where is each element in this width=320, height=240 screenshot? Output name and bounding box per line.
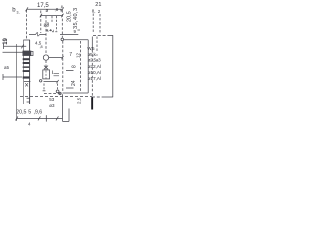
dimension line 2 (y15.5): [41, 15, 63, 17]
svg-text:,9,6: ,9,6: [34, 110, 43, 116]
dimension line 17,5 (top): [27, 8, 63, 10]
faceplate bar 1: [23, 58, 30, 60]
faceplate centerline dashed (above): [26, 10, 28, 40]
svg-text:ø10,Al: ø10,Al: [88, 70, 101, 76]
tiny 4 below line: [28, 122, 31, 127]
plus tick x44: [43, 90, 46, 92]
faceplate bar 5: [23, 76, 30, 78]
svg-text:12: 12: [75, 52, 80, 58]
long vertical extension line x16.6: [16, 44, 18, 121]
svg-text:,8: ,8: [40, 45, 43, 49]
svg-text:53: 53: [49, 97, 55, 102]
small circle on line: [59, 92, 61, 94]
slash ticks on bottom dim: [16, 116, 18, 120]
front view: top edge: [64, 39, 89, 41]
svg-text:19: 19: [3, 37, 9, 44]
faceplate left edge: [23, 40, 25, 104]
side view case: right solid edge: [112, 35, 114, 97]
left dim line y46.3: [4, 45, 27, 47]
dashed centerline x40.8: [40, 11, 42, 34]
dimension 21 (top right): [95, 2, 101, 8]
dashed line x56.6: [56, 16, 58, 31]
svg-text:20,5: 20,5: [16, 110, 26, 116]
rotated dimension text 43,5: [73, 7, 79, 29]
front view: left dashed edge: [62, 41, 64, 92]
svg-text:8: 8: [72, 65, 78, 68]
faceplate right edge: [29, 40, 31, 104]
svg-text:ø3: ø3: [49, 103, 55, 108]
front view: right edge: [87, 40, 89, 93]
small dashes right of square: [52, 71, 54, 75]
faceplate bar 4: [23, 70, 30, 72]
svg-text:ø5,k=: ø5,k=: [88, 52, 99, 57]
follower square hole: [43, 70, 50, 79]
side view inner dashed line: [96, 37, 98, 53]
small text row 1,4 with dashes: [46, 28, 52, 33]
follower centerline dashed: [45, 16, 47, 55]
svg-text:a5: a5: [4, 65, 10, 70]
long dashed line across bottom of case: [20, 95, 92, 97]
arrow cross above square: [44, 66, 48, 70]
rotated text 12 inside front view: [75, 52, 80, 58]
label b3 top-left: [12, 8, 20, 15]
S-break line y34.6 left part: [29, 34, 36, 36]
mid vertical chain dimension ticks: [66, 70, 74, 72]
side view case: left edge solid then dashed: [91, 37, 93, 51]
faceplate small x cross: [25, 83, 28, 86]
dashed line x52: [51, 16, 53, 22]
faceplate top edge: [23, 39, 30, 41]
svg-text:ø2,5a3: ø2,5a3: [88, 58, 101, 63]
right text block rows: [87, 46, 101, 82]
follower circle: [43, 55, 48, 60]
faceplate bottom ticks: [27, 97, 30, 99]
front view: corner circle datum: [61, 38, 64, 41]
bottom dim texts: [16, 110, 42, 116]
side view case: top dashed edge: [93, 35, 108, 37]
front view: bottom edge: [63, 92, 89, 94]
tiny 9 above: [74, 29, 77, 34]
line y81.6: [44, 81, 58, 83]
text 4,5 under S: [35, 41, 42, 46]
centerline circle to square: [45, 61, 47, 70]
svg-text:ø17,Al: ø17,Al: [88, 76, 101, 82]
extension dashed lines from 21 dim: [92, 14, 94, 34]
faceplate bar 2: [23, 62, 30, 64]
rotated text 19 (left): [3, 37, 9, 44]
faceplate bar 3: [23, 66, 30, 68]
dashed x44 below: [43, 84, 45, 91]
tiny text 2,5: [77, 97, 82, 104]
latch bolt protruding block: [23, 51, 32, 56]
line y34.6 right part: [60, 34, 78, 36]
dashed x57.5 below: [57, 84, 59, 90]
svg-text:,8: ,8: [55, 7, 59, 12]
faceplate cross tick: [24, 81, 31, 83]
svg-text:ø22,Al: ø22,Al: [88, 64, 101, 70]
svg-text:5: 5: [28, 110, 31, 116]
rotated text 24: [71, 80, 77, 86]
chain tick x46.3: [45, 115, 47, 121]
bottom center glyph rows: [49, 97, 55, 108]
dashed centerline x62.3: [61, 10, 63, 38]
svg-text:7: 7: [69, 52, 72, 58]
small text o and 8 above second line: [46, 5, 63, 13]
svg-text:3..: 3..: [17, 11, 21, 15]
svg-text:8: 8: [61, 5, 63, 9]
small circle left: [40, 80, 42, 82]
left dim line y77: [3, 76, 22, 78]
vertical line x62.5 down: [62, 94, 64, 121]
rotated dimension text 20,5: [67, 11, 73, 22]
small bottom bracket dim: [63, 120, 70, 122]
small circle x57.6: [56, 90, 59, 93]
front view: interior dashed line: [80, 41, 82, 93]
tiny glyph 5 left: [4, 65, 10, 70]
rotated text 8: [72, 65, 78, 68]
dashed bottom extension of front view: [44, 93, 62, 95]
svg-text:2,5: 2,5: [77, 97, 82, 104]
svg-text:21: 21: [95, 2, 101, 8]
bottom chained dimension line: [17, 117, 63, 119]
spindle line: [49, 57, 63, 59]
text diameter 8: [44, 23, 50, 29]
short dashes y30.5: [46, 29, 54, 31]
svg-text:20,5: 20,5: [67, 11, 73, 22]
svg-text:35,40,3: 35,40,3: [73, 7, 79, 29]
svg-text:8,: 8,: [92, 8, 96, 13]
side view case: bottom dashed edge: [92, 96, 104, 98]
thick dark bar below side view: [91, 97, 93, 109]
svg-text:24: 24: [71, 80, 77, 86]
svg-text:ø: ø: [46, 8, 49, 13]
left dim line y52.3: [3, 51, 24, 53]
